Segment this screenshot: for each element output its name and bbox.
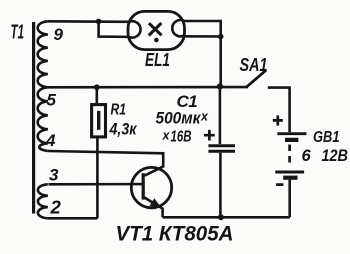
- svg-text:R1: R1: [111, 102, 127, 119]
- svg-text:6: 6: [302, 147, 312, 165]
- svg-text:SA1: SA1: [240, 54, 268, 75]
- svg-text:х: х: [162, 129, 171, 143]
- svg-text:4: 4: [45, 131, 56, 150]
- svg-text:х: х: [200, 110, 209, 124]
- svg-text:2: 2: [50, 197, 62, 218]
- svg-text:12В: 12В: [322, 147, 349, 165]
- svg-text:9: 9: [54, 25, 64, 44]
- svg-text:4,3к: 4,3к: [109, 121, 138, 139]
- svg-text:VT1 КТ805А: VT1 КТ805А: [116, 223, 234, 246]
- svg-text:3: 3: [49, 166, 59, 185]
- svg-text:Т1: Т1: [11, 22, 25, 44]
- svg-text:EL1: EL1: [145, 50, 170, 70]
- svg-text:500мк: 500мк: [156, 110, 203, 128]
- svg-text:GВ1: GВ1: [313, 129, 340, 146]
- svg-text:16В: 16В: [171, 129, 192, 146]
- svg-text:С1: С1: [177, 92, 198, 111]
- svg-text:5: 5: [47, 91, 57, 110]
